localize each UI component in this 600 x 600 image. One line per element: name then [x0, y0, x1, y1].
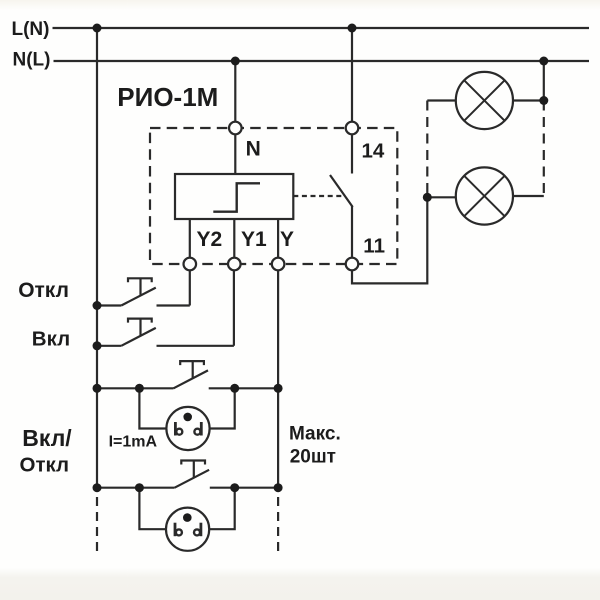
- node junction dots: [93, 24, 549, 493]
- svg-text:Y2: Y2: [197, 228, 223, 251]
- svg-text:Вкл/: Вкл/: [22, 425, 72, 451]
- wire dashed lamp-chain left: [426, 101, 428, 198]
- pushbutton SB4 (Вкл/Откл row 2): [97, 461, 278, 488]
- node lamp EL2 left: [423, 193, 432, 202]
- terminal Y1: [228, 258, 241, 271]
- wire lamp EL2 left lead: [427, 196, 456, 198]
- svg-text:14: 14: [362, 140, 385, 163]
- svg-text:Макс.: Макс.: [289, 423, 341, 444]
- node lamp EL1 right: [539, 96, 548, 105]
- node row3 left: [93, 384, 102, 393]
- node SB2 left: [93, 341, 102, 350]
- svg-text:Вкл: Вкл: [32, 328, 70, 351]
- node SB1 left: [93, 301, 102, 310]
- device РИО-1М dashed enclosure: [150, 128, 397, 264]
- terminal Y: [272, 258, 285, 271]
- terminal 11: [346, 258, 359, 271]
- svg-text:20шт: 20шт: [290, 447, 336, 468]
- svg-text:Y1: Y1: [241, 228, 267, 251]
- wire N bus to terminal N: [234, 61, 236, 122]
- wire L bus to terminal 14: [351, 28, 353, 122]
- wire lamp EL1 left lead: [427, 99, 456, 101]
- wire terminal N to relay coil box: [234, 134, 236, 174]
- wire left column dashed tail: [96, 497, 98, 556]
- svg-text:11: 11: [363, 235, 385, 258]
- svg-text:I=1mA: I=1mA: [109, 433, 158, 450]
- terminal Y2: [184, 258, 197, 271]
- pushbutton SB2 (Вкл): [97, 270, 234, 346]
- node N bus / lamp feed: [539, 57, 548, 66]
- node row4 left: [93, 483, 102, 492]
- svg-text:N(L): N(L): [13, 50, 51, 71]
- svg-text:N: N: [246, 137, 261, 160]
- node row3 HL1 right riser: [230, 384, 239, 393]
- wire L(N) bus: [53, 27, 590, 29]
- wire N(L) bus: [54, 60, 590, 62]
- wire dashed lamp-chain right: [543, 101, 545, 197]
- terminal N: [229, 122, 242, 135]
- wire N bus to lamp feed: [543, 61, 545, 101]
- node row3 HL1 left riser: [135, 384, 144, 393]
- node row4 HL2 left riser: [135, 483, 144, 492]
- node row3 Y column: [274, 384, 283, 393]
- node row4 Y column: [274, 483, 283, 492]
- svg-text:L(N): L(N): [12, 19, 50, 40]
- relay contact blade: [330, 175, 353, 207]
- wire lamp EL1 right lead: [513, 99, 544, 101]
- relay contact fixed wire from terminal 14: [351, 134, 353, 173]
- wire Y column dashed tail: [277, 497, 279, 556]
- relay contact wire to terminal 11: [351, 206, 353, 258]
- svg-text:Откл: Откл: [18, 279, 69, 302]
- svg-text:Откл: Откл: [20, 453, 70, 476]
- mechanical link (dashed) relay box to contact: [293, 195, 345, 197]
- wire relay box to terminal Y2: [189, 219, 191, 258]
- node row4 HL2 right riser: [230, 483, 239, 492]
- wire Y column: [277, 270, 279, 487]
- neon lamp HL2: [139, 488, 234, 551]
- lamp EL1: [456, 72, 513, 129]
- node N bus / N drop: [231, 57, 240, 66]
- neon lamp HL1: [139, 388, 234, 450]
- svg-text:РИО-1М: РИО-1М: [117, 82, 218, 112]
- wire lamp EL2 right lead: [513, 195, 544, 197]
- pushbutton SB1 (Откл): [97, 270, 190, 305]
- hysteresis symbol inside relay box: [213, 183, 260, 211]
- wire relay box to terminal Y1: [233, 219, 235, 258]
- wire lamp return to terminal 11: [352, 197, 427, 283]
- lamp EL2: [456, 167, 513, 224]
- terminal 14: [346, 122, 359, 135]
- node L bus / left column: [93, 24, 102, 33]
- node L bus / 14 drop: [348, 24, 357, 33]
- relay coil box U1: [175, 174, 293, 219]
- wire relay box to terminal Y: [277, 219, 279, 258]
- svg-text:Y: Y: [280, 228, 294, 251]
- pushbutton SB3 (Вкл/Откл row 1): [97, 361, 278, 388]
- wire left column (L feed): [96, 28, 98, 488]
